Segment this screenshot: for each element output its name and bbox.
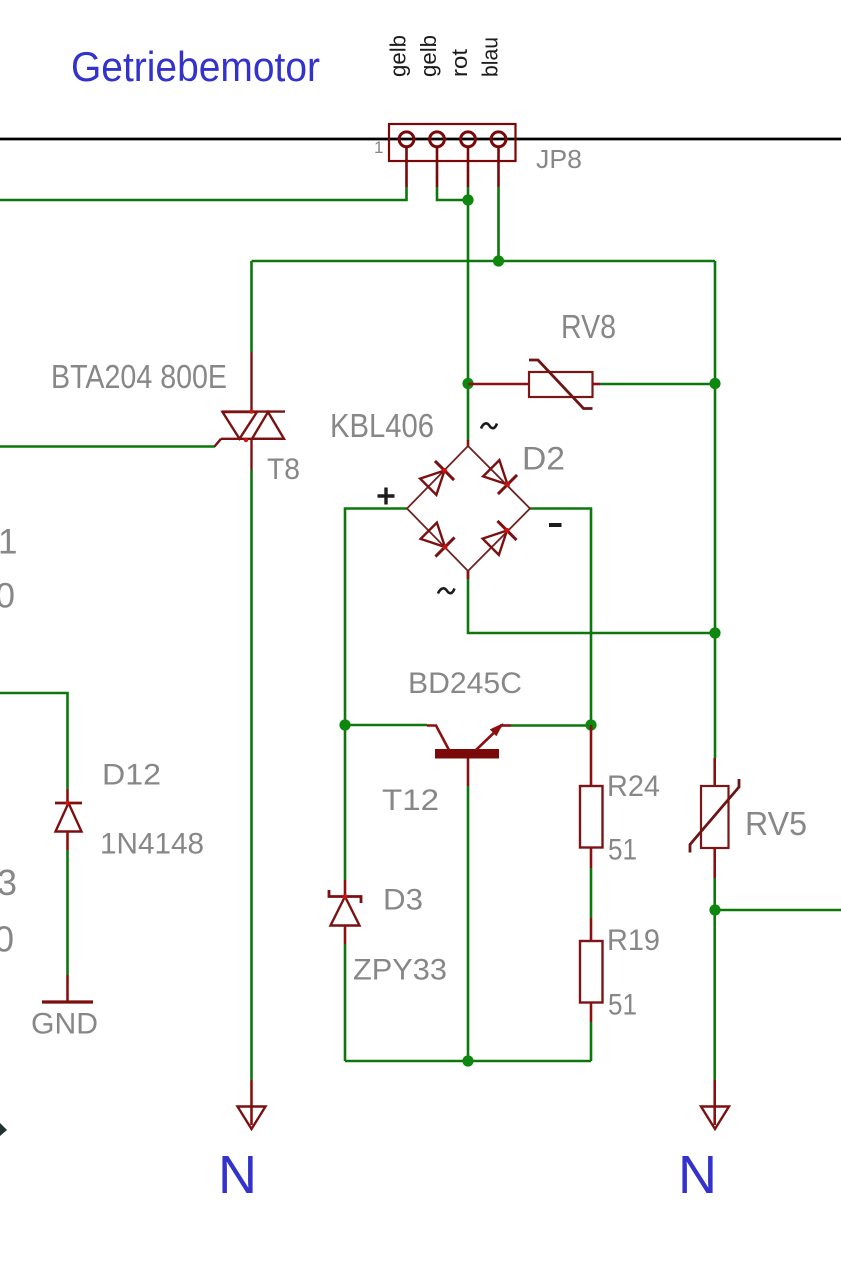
wire left rail down to triac [250, 261, 253, 352]
junction pin4/top rail [493, 255, 504, 266]
svg-text:0: 0 [0, 577, 15, 616]
wire triac to N [250, 470, 253, 1080]
resistor R19 [580, 918, 603, 1022]
wire pin1 to left edge [0, 187, 407, 200]
wire node to right edge [715, 909, 841, 912]
junction RV5 node [709, 904, 720, 915]
bridge rectifier D2 KBL406 [407, 446, 530, 571]
svg-text:rot: rot [447, 49, 472, 77]
wire R19 to bottom rail [590, 1022, 593, 1061]
diode bottom-left of D2 [419, 521, 456, 558]
junction RV8 left [462, 378, 473, 389]
varistor RV5 [690, 758, 739, 878]
svg-text:T12: T12 [382, 784, 439, 817]
wire right rail down [714, 261, 717, 758]
wire bottom rail [345, 1060, 591, 1063]
supply symbol N (left) [238, 1080, 266, 1129]
svg-text:51: 51 [608, 834, 637, 867]
svg-text:1: 1 [374, 138, 383, 157]
junction base node [339, 719, 350, 730]
bus wire (black horizontal line) [0, 138, 841, 141]
svg-text:GND: GND [31, 1008, 98, 1041]
wire transistor collector down [467, 786, 470, 1061]
wire top horizontal rail [252, 260, 716, 263]
wire pin3 down to bridge top [467, 187, 470, 441]
diode D12 [55, 789, 82, 850]
ground GND [42, 975, 93, 1002]
wire emitter to R24 node [511, 724, 591, 727]
junction bottom rail [462, 1055, 473, 1066]
svg-text:JP8: JP8 [536, 146, 582, 174]
svg-text:BTA204 800E: BTA204 800E [51, 358, 227, 395]
wire triac gate to left edge [0, 445, 215, 448]
svg-text:KBL406: KBL406 [330, 407, 434, 444]
svg-text:D12: D12 [102, 759, 161, 792]
svg-text:gelb: gelb [416, 35, 441, 77]
wire bridge minus corner down [530, 509, 591, 726]
svg-text:1: 1 [0, 523, 17, 562]
svg-text:3: 3 [0, 862, 17, 903]
zener diode D3 [329, 880, 361, 944]
diode top-right of D2 [482, 459, 519, 496]
svg-text:ZPY33: ZPY33 [353, 954, 447, 987]
wire bridge plus corner to left [345, 509, 407, 881]
connector JP8 [389, 124, 516, 187]
svg-text:1N4148: 1N4148 [100, 828, 204, 861]
bridge bottom pin stub [467, 571, 470, 579]
wire pin2 to node [437, 187, 468, 200]
svg-text:gelb: gelb [386, 35, 411, 77]
wire pin4 down [497, 187, 500, 261]
junction collector node R24 [585, 719, 596, 730]
transistor T12 BD245C [427, 723, 511, 786]
junction RV8 right [709, 378, 720, 389]
pin name tilde bottom [438, 588, 455, 593]
diode top-left of D2 [419, 459, 456, 496]
svg-text:Getriebemotor: Getriebemotor [71, 43, 320, 90]
junction pin2/pin3 [462, 194, 473, 205]
svg-text:RV8: RV8 [561, 308, 616, 345]
diode bottom-right of D2 [481, 519, 518, 556]
pin name tilde top [481, 423, 497, 428]
wire R24 to R19 [590, 868, 593, 918]
svg-text:blau: blau [478, 37, 503, 77]
svg-text:0: 0 [0, 919, 14, 960]
wire zener to bottom rail [344, 944, 347, 1061]
svg-text:D3: D3 [383, 884, 423, 917]
arrow tip (cut off at left edge) [0, 1123, 7, 1136]
svg-text:D2: D2 [522, 441, 565, 477]
wire bridge bottom corner [468, 571, 715, 633]
svg-text:51: 51 [608, 989, 637, 1022]
svg-text:N: N [678, 1145, 717, 1205]
resistor R24 [580, 725, 603, 868]
wire base node to transistor [345, 724, 427, 727]
svg-text:BD245C: BD245C [408, 667, 522, 700]
svg-text:T8: T8 [267, 453, 300, 486]
wire D12 to GND [66, 850, 69, 975]
triac T8 [215, 352, 286, 470]
varistor RV8 [468, 360, 600, 409]
wire to D12 from left edge [0, 693, 68, 789]
svg-text:R24: R24 [607, 770, 660, 803]
wire RV8 right to rail [600, 383, 715, 386]
junction bridge bottom / right rail [709, 627, 720, 638]
pin name minus [549, 523, 562, 527]
wire RV5 to node [713, 878, 716, 1080]
svg-text:R19: R19 [607, 924, 660, 957]
pin name plus [378, 488, 395, 505]
bridge top pin stub [467, 440, 470, 446]
svg-text:N: N [218, 1145, 257, 1205]
supply symbol N (right) [701, 1080, 729, 1129]
svg-text:RV5: RV5 [745, 805, 807, 842]
